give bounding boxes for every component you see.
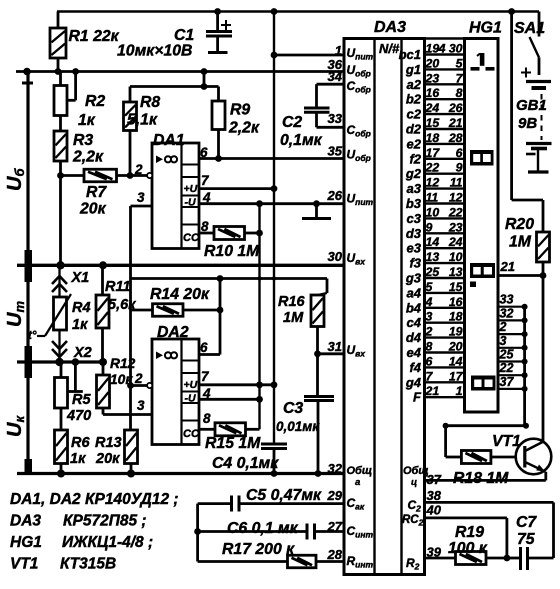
wire C4 to bottom bus xyxy=(273,449,276,474)
svg-text:11: 11 xyxy=(426,191,439,205)
svg-text:c2: c2 xyxy=(407,107,422,122)
battery GB1 xyxy=(521,68,552,173)
wire R16 bottom xyxy=(316,327,319,354)
wire R19 right xyxy=(486,557,507,560)
svg-text:+U: +U xyxy=(184,183,198,195)
wire HG1 pin 25 xyxy=(498,360,525,362)
svg-text:5: 5 xyxy=(426,280,433,294)
label Obshch-c pin37 xyxy=(403,465,429,488)
svg-text:21: 21 xyxy=(448,116,463,130)
wire R15 to rail xyxy=(246,428,260,431)
common T-bar under C1 xyxy=(208,51,228,54)
svg-text:R3: R3 xyxy=(73,132,93,149)
resistor R6 xyxy=(55,430,68,464)
junction SA1 branch xyxy=(508,8,515,15)
op-amp DA1 xyxy=(152,143,200,249)
resistor R3 xyxy=(54,131,67,161)
svg-text:22: 22 xyxy=(499,361,514,375)
junction R13 bottom bus xyxy=(127,470,135,478)
junction R1/R2 xyxy=(55,68,62,75)
wire right branch down xyxy=(510,12,513,201)
svg-text:c4: c4 xyxy=(407,315,422,330)
wire R12 top xyxy=(102,362,105,375)
wire C3 bottom xyxy=(317,401,320,474)
svg-text:15: 15 xyxy=(449,280,463,294)
junction DA2 out riser xyxy=(217,275,224,282)
svg-text:C6 0,1 мк: C6 0,1 мк xyxy=(227,520,299,537)
wire g1 row xyxy=(425,68,465,70)
wire to R20 top xyxy=(512,199,543,202)
svg-text:8: 8 xyxy=(426,340,433,354)
wire top +9V bus xyxy=(57,10,539,13)
svg-text:22: 22 xyxy=(448,205,463,219)
svg-text:a4: a4 xyxy=(407,285,422,300)
DA1 pin2 input circle xyxy=(147,173,152,178)
terminal X2 xyxy=(52,330,67,362)
wire bc1 row xyxy=(425,53,465,55)
svg-text:35: 35 xyxy=(328,144,343,159)
capacitor C2 xyxy=(304,108,330,112)
junction C1-top xyxy=(214,8,221,15)
wire DA2 pin2 xyxy=(131,384,148,387)
svg-text:13: 13 xyxy=(449,265,463,279)
wire c4 row xyxy=(425,322,465,324)
resistor R13 xyxy=(125,430,138,464)
svg-text:-U: -U xyxy=(185,393,196,405)
junction top link to bus xyxy=(201,83,208,90)
resistor R18 xyxy=(461,451,491,464)
svg-text:1М: 1М xyxy=(509,234,532,251)
svg-text:9: 9 xyxy=(426,220,433,234)
svg-text:1к: 1к xyxy=(70,451,86,467)
display HG1 box xyxy=(465,39,499,413)
wire R9 bottom xyxy=(217,130,220,159)
wire DA2 pin8 to R15 xyxy=(199,428,215,431)
capacitor C7 xyxy=(521,547,528,570)
svg-text:6: 6 xyxy=(426,354,433,368)
svg-text:38: 38 xyxy=(427,488,442,503)
svg-text:R19: R19 xyxy=(455,524,484,541)
svg-text:e4: e4 xyxy=(407,345,422,360)
svg-text:3: 3 xyxy=(137,398,145,413)
wire F row xyxy=(425,396,465,398)
junction fan corner left xyxy=(443,423,449,429)
wire HG1 pin 37 xyxy=(498,388,525,390)
junction C3 bus xyxy=(315,470,322,477)
resistor R7 xyxy=(84,169,117,182)
tick on left rail xyxy=(22,82,33,85)
svg-text:9: 9 xyxy=(456,161,463,175)
svg-text:DA3: DA3 xyxy=(10,513,41,530)
svg-text:R16: R16 xyxy=(278,294,306,310)
wire bus Uref / pin36 xyxy=(16,70,344,73)
wire DA1 pin8 to R10 xyxy=(199,232,214,235)
svg-text:14: 14 xyxy=(426,235,440,249)
svg-text:R10 1M: R10 1M xyxy=(204,243,260,260)
svg-text:24: 24 xyxy=(425,101,440,115)
wire e4 row xyxy=(425,351,465,353)
svg-text:14: 14 xyxy=(449,354,463,368)
svg-text:a2: a2 xyxy=(407,77,422,92)
junction R9/DA1 out xyxy=(215,155,222,162)
svg-text:1: 1 xyxy=(456,384,463,398)
svg-text:f4: f4 xyxy=(409,360,421,375)
junction R14 riser xyxy=(217,307,224,314)
svg-text:b2: b2 xyxy=(406,92,422,107)
svg-text:13: 13 xyxy=(426,250,440,264)
wire HG1 pin 32 xyxy=(498,319,525,321)
svg-text:R5: R5 xyxy=(72,392,91,408)
svg-text:R18 1M: R18 1M xyxy=(453,470,509,487)
wire to R7 xyxy=(61,174,85,177)
svg-text:1: 1 xyxy=(335,43,342,58)
wire R20 top riser xyxy=(542,200,545,232)
thermistor R4 xyxy=(54,297,67,330)
svg-text:100 к: 100 к xyxy=(448,540,488,557)
wire R3 bottom xyxy=(59,161,62,176)
junction X2 xyxy=(55,358,63,366)
svg-text:4: 4 xyxy=(425,295,433,309)
wire HG1 pin21 xyxy=(498,274,543,277)
svg-text:9В: 9В xyxy=(518,115,537,132)
wire R13 bottom xyxy=(130,464,133,474)
wire R18 left xyxy=(446,456,462,459)
svg-text:-U: -U xyxy=(185,197,196,209)
svg-text:t°: t° xyxy=(28,330,37,342)
wire a4 row xyxy=(425,292,465,294)
svg-text:R6: R6 xyxy=(71,435,90,451)
IC DA3 box xyxy=(344,39,425,575)
svg-text:17: 17 xyxy=(449,369,464,383)
svg-text:R9: R9 xyxy=(230,102,250,119)
blob crossing +U xyxy=(272,276,276,280)
resistor R5 xyxy=(55,378,68,409)
wire C5 to pin29 xyxy=(239,502,344,505)
wire g4 row xyxy=(425,381,465,383)
svg-text:20к: 20к xyxy=(95,451,120,467)
junction pin4 -U rail xyxy=(256,200,263,207)
wire DA1 pin7 to +U rail xyxy=(199,187,274,190)
svg-text:R8: R8 xyxy=(140,94,160,111)
wire input bus X1 to DA3 pin30 xyxy=(17,264,344,267)
svg-text:17: 17 xyxy=(426,146,441,160)
wire fan bus bottom xyxy=(446,424,525,427)
svg-text:R17 200 к: R17 200 к xyxy=(222,541,295,558)
svg-text:C2: C2 xyxy=(282,114,302,131)
svg-text:2: 2 xyxy=(499,320,507,334)
svg-text:R20: R20 xyxy=(505,216,534,233)
wire R5 top xyxy=(60,362,63,378)
wire e3 row xyxy=(425,247,465,249)
junction input bus X1 column xyxy=(56,261,64,269)
svg-text:g1: g1 xyxy=(405,62,421,77)
svg-text:e3: e3 xyxy=(407,241,422,256)
svg-text:28: 28 xyxy=(327,547,343,562)
wire C2 top riser xyxy=(315,84,318,107)
junction R11 top xyxy=(99,261,107,269)
svg-text:g3: g3 xyxy=(405,271,422,286)
capacitor C3 xyxy=(304,397,334,401)
svg-text:3: 3 xyxy=(137,190,145,205)
svg-text:b3: b3 xyxy=(406,196,422,211)
svg-text:18: 18 xyxy=(449,310,463,324)
svg-text:2: 2 xyxy=(134,162,143,177)
wire d4 row xyxy=(425,336,465,338)
wire left rail of RC block xyxy=(196,504,199,562)
capacitor C5 xyxy=(232,496,240,512)
wire left rail xyxy=(26,72,29,474)
svg-text:R1 22к: R1 22к xyxy=(69,28,120,45)
wire R3R7 node down to input bus xyxy=(59,176,62,266)
svg-text:КР572П85 ;: КР572П85 ; xyxy=(63,513,147,530)
svg-text:21: 21 xyxy=(425,384,440,398)
wire b4 row xyxy=(425,307,465,309)
wire b3 row xyxy=(425,202,465,204)
svg-text:12: 12 xyxy=(449,191,463,205)
svg-text:ц: ц xyxy=(411,477,417,488)
wire C2 bottom riser xyxy=(315,112,318,127)
svg-text:20: 20 xyxy=(425,56,440,70)
svg-text:GB1: GB1 xyxy=(516,97,547,114)
svg-text:C7: C7 xyxy=(516,514,537,531)
svg-text:8: 8 xyxy=(456,86,463,100)
svg-text:3: 3 xyxy=(426,310,433,324)
wire +U rail xyxy=(273,12,275,445)
svg-text:+U: +U xyxy=(184,379,198,391)
wire DA1 out to DA3 pin35 xyxy=(199,157,344,160)
svg-text:R7: R7 xyxy=(86,184,107,201)
wire pin29 left xyxy=(198,502,232,505)
junction R2 wiper xyxy=(72,68,79,75)
wire R18 to VT1 base xyxy=(491,456,516,459)
wire -U rail xyxy=(258,204,260,430)
resistor R2 xyxy=(54,86,67,116)
wire f4 row xyxy=(425,366,465,368)
svg-text:c3: c3 xyxy=(407,211,422,226)
svg-text:10: 10 xyxy=(449,250,463,264)
wire R12 bottom xyxy=(102,408,105,415)
svg-text:26: 26 xyxy=(327,188,343,203)
junction R5 wiper xyxy=(72,358,80,366)
wire R12 to DA2 pin3 xyxy=(103,413,152,416)
wire R20 to VT1 collector xyxy=(542,262,545,442)
junction R16/C3/pin31 xyxy=(314,350,321,357)
svg-text:25: 25 xyxy=(425,265,440,279)
wire bottom common bus to pin32 xyxy=(17,472,344,475)
svg-text:10к: 10к xyxy=(110,372,133,387)
svg-text:33: 33 xyxy=(500,293,514,307)
wire R14 to DA2 out riser xyxy=(183,309,220,312)
resistor R19 xyxy=(456,552,487,565)
common T-bar xyxy=(302,217,331,220)
junction R6 bottom bus xyxy=(57,470,65,478)
wire VT1 emitter down xyxy=(544,472,547,481)
svg-text:R13: R13 xyxy=(95,435,122,451)
decimal point xyxy=(470,282,476,288)
wire R2 wiper tap xyxy=(67,99,76,102)
wire HG1 pin 22 xyxy=(498,374,525,376)
wire R5-R6 xyxy=(60,408,63,430)
svg-text:0,1мк: 0,1мк xyxy=(280,132,323,149)
switch SA1 blade xyxy=(530,37,540,58)
wire R8 bottom riser xyxy=(129,131,132,176)
svg-text:31: 31 xyxy=(328,339,342,354)
wire pin38 xyxy=(425,501,554,504)
resistor R9 xyxy=(212,101,225,130)
wire pin39 to R19 xyxy=(425,557,456,560)
wire to C7 xyxy=(507,557,521,560)
junction common stub xyxy=(313,200,320,207)
junction pin7 +U xyxy=(271,185,278,192)
wire R1 bottom xyxy=(57,58,60,72)
wire e2 row xyxy=(425,143,465,145)
svg-text:ИЖКЦ1-4/8 ;: ИЖКЦ1-4/8 ; xyxy=(62,534,153,551)
wire pin33 xyxy=(317,126,345,129)
svg-text:6: 6 xyxy=(200,340,208,355)
wire C6 to pin27 xyxy=(315,530,345,533)
wire C1 bottom xyxy=(216,36,219,53)
wire R2 top xyxy=(59,72,62,86)
svg-text:SA1: SA1 xyxy=(514,20,545,37)
DA2 pin2 input circle xyxy=(147,383,152,388)
svg-text:b4: b4 xyxy=(406,300,422,315)
wire HG1 pin 33 xyxy=(498,306,525,308)
wire DA1 pin3 long vertical xyxy=(129,206,132,430)
svg-text:8: 8 xyxy=(203,411,211,426)
wire d2 row xyxy=(425,128,465,130)
resistor R11 xyxy=(96,295,109,328)
R4 thermistor stroke xyxy=(37,294,71,336)
svg-text:7: 7 xyxy=(456,71,464,85)
digit 1 segment xyxy=(471,53,495,71)
svg-text:20: 20 xyxy=(448,340,463,354)
junction pin21 R20 xyxy=(540,272,547,279)
wire pin40 xyxy=(425,517,507,520)
wire pin38 down to C7 xyxy=(552,502,555,558)
junction +U rail top xyxy=(271,8,278,15)
wire R16 jog xyxy=(318,293,327,295)
svg-text:КР140УД12 ;: КР140УД12 ; xyxy=(85,491,179,508)
svg-text:11: 11 xyxy=(450,176,463,190)
resistor R14 xyxy=(153,304,184,317)
svg-text:26: 26 xyxy=(448,101,463,115)
svg-text:25: 25 xyxy=(499,348,515,362)
junction blob left rail bus2 xyxy=(25,346,33,378)
svg-text:34: 34 xyxy=(328,69,343,84)
svg-text:5: 5 xyxy=(456,56,463,70)
wire a3 row xyxy=(425,187,465,189)
svg-text:10мк×10В: 10мк×10В xyxy=(117,43,192,60)
svg-text:10: 10 xyxy=(426,205,440,219)
junction pin3 column / DA2 pin2 xyxy=(127,382,134,389)
wire DA1 pin4 / DA3 pin26 xyxy=(199,202,344,205)
wire R11 bottom xyxy=(101,328,104,362)
wire common stub xyxy=(315,204,318,219)
wire g2 row xyxy=(425,172,465,174)
svg-text:X1: X1 xyxy=(71,270,90,286)
transistor VT1 xyxy=(516,439,552,475)
svg-text:0,01мк: 0,01мк xyxy=(276,419,320,434)
svg-text:15: 15 xyxy=(426,116,440,130)
op-amp DA2 xyxy=(152,339,200,445)
svg-text:C5 0,47мк: C5 0,47мк xyxy=(246,487,322,504)
wire DA2 pin6 xyxy=(199,353,220,356)
svg-text:DA2: DA2 xyxy=(157,324,189,341)
wire pin34 xyxy=(317,83,345,86)
resistor R16 xyxy=(311,295,324,327)
svg-text:6: 6 xyxy=(456,146,463,160)
svg-text:d2: d2 xyxy=(406,122,422,137)
svg-text:VT1: VT1 xyxy=(492,433,521,450)
wire input bus X2 xyxy=(17,360,103,363)
svg-text:d4: d4 xyxy=(406,330,422,345)
resistor R8 xyxy=(124,102,137,131)
blob pin7 crossing xyxy=(256,381,263,388)
wire R5 wiper tap xyxy=(68,390,83,393)
junction blob left rail bottom xyxy=(25,459,33,475)
wire HG1 pin 2 xyxy=(498,333,525,335)
svg-text:R12: R12 xyxy=(110,356,136,371)
junction R3/R7 xyxy=(57,172,64,179)
wire a2 row xyxy=(425,83,465,85)
svg-text:d3: d3 xyxy=(406,226,422,241)
capacitor C1 xyxy=(206,20,232,36)
wire to R14 xyxy=(131,309,153,312)
svg-text:470: 470 xyxy=(66,408,91,424)
wire SA1 top xyxy=(538,12,541,37)
svg-text:e2: e2 xyxy=(407,136,422,151)
blob crossing -U xyxy=(257,276,261,280)
wire R16 riser xyxy=(326,279,329,294)
wire to R18 xyxy=(444,426,447,457)
wire g3 row xyxy=(425,277,465,279)
digit 8 middle xyxy=(470,263,495,278)
svg-text:C1: C1 xyxy=(174,27,194,44)
junction fan bus corner xyxy=(523,423,529,429)
svg-text:32: 32 xyxy=(328,461,343,476)
junction R19/C7/pin40 xyxy=(504,555,511,562)
wire R6 bottom xyxy=(60,464,63,474)
svg-text:HG1: HG1 xyxy=(10,534,42,551)
wire R5 wiper riser xyxy=(74,362,77,392)
wire R8 top riser xyxy=(129,87,132,103)
svg-text:HG1: HG1 xyxy=(469,20,502,37)
wire to DA3 pin31 xyxy=(318,352,345,355)
junction C6 rail xyxy=(194,528,201,535)
svg-text:32: 32 xyxy=(500,306,514,320)
resistor R17 xyxy=(288,555,317,568)
wire fan bus xyxy=(523,307,526,426)
svg-text:Общ: Общ xyxy=(347,465,373,477)
svg-text:2: 2 xyxy=(134,371,143,386)
digit 8 upper xyxy=(470,150,494,166)
wire C7 to pin38 loop xyxy=(528,557,554,560)
wire top rung xyxy=(425,37,465,40)
wire R2 wiper riser xyxy=(74,72,77,101)
svg-text:VT1: VT1 xyxy=(10,556,38,573)
resistor R10 xyxy=(214,227,245,240)
wire R9 top xyxy=(217,87,220,102)
wire R1 top xyxy=(57,12,60,29)
wire b2 row xyxy=(425,98,465,100)
svg-text:75: 75 xyxy=(517,531,535,548)
junction left rail top xyxy=(23,68,31,76)
junction blob left rail bus1 xyxy=(25,250,33,282)
svg-text:29: 29 xyxy=(327,488,343,503)
svg-text:C4 0,1мк: C4 0,1мк xyxy=(212,455,279,472)
svg-text:18: 18 xyxy=(426,131,440,145)
wire DA2 pin7 to +U xyxy=(199,383,274,386)
